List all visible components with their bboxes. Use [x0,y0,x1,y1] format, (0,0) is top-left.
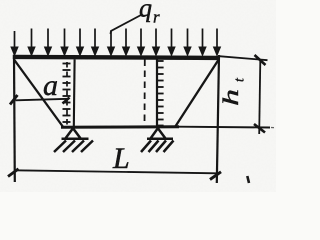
right stiffener dashed line [144,60,146,127]
top extension line (right) [219,56,268,60]
svg-text:h: h [219,89,244,106]
svg-text:r: r [153,8,160,27]
load arrow 8 [123,29,129,55]
dimension L line [8,169,221,180]
bottom chord [61,125,179,128]
left stiffener dashed line [66,62,68,126]
right stiffener weld ticks [157,61,164,126]
distributed load arrows [12,29,220,55]
load arrow 13 [200,29,206,55]
dimension h_t line [254,55,266,134]
right post (solid) [156,58,158,129]
bottom extension trailing dash [271,127,274,129]
svg-text:L: L [112,142,130,175]
right diagonal [175,59,219,127]
left support [54,128,93,152]
top chord [13,57,220,58]
load arrow 2 [29,29,35,55]
load arrow 7 [108,31,114,55]
dimension a line [10,95,70,105]
load arrow 11 [169,29,175,55]
left stiffener weld ticks [63,64,71,123]
load arrow 10 [153,29,159,55]
label h_t (rotated) [219,77,248,106]
load arrow 6 [92,29,98,55]
svg-text:q: q [139,0,152,23]
load arrow 14 [214,29,220,55]
q_r leader line [111,15,142,34]
load arrow 5 [77,29,83,55]
load arrow 4 [62,29,68,55]
bottom extension line (right) [179,126,270,129]
left diagonal [14,60,64,128]
svg-text:a: a [43,69,58,102]
load arrow 1 [12,31,18,55]
stray tick bottom right [247,176,249,183]
load arrow 3 [45,29,51,55]
paper background [0,0,276,192]
left vertical edge / L extension [13,55,16,182]
right vertical edge / L extension [217,55,219,183]
load arrow 9 [138,29,144,55]
right support [141,128,174,152]
left post (solid) [73,60,76,129]
load arrow 12 [185,29,191,55]
